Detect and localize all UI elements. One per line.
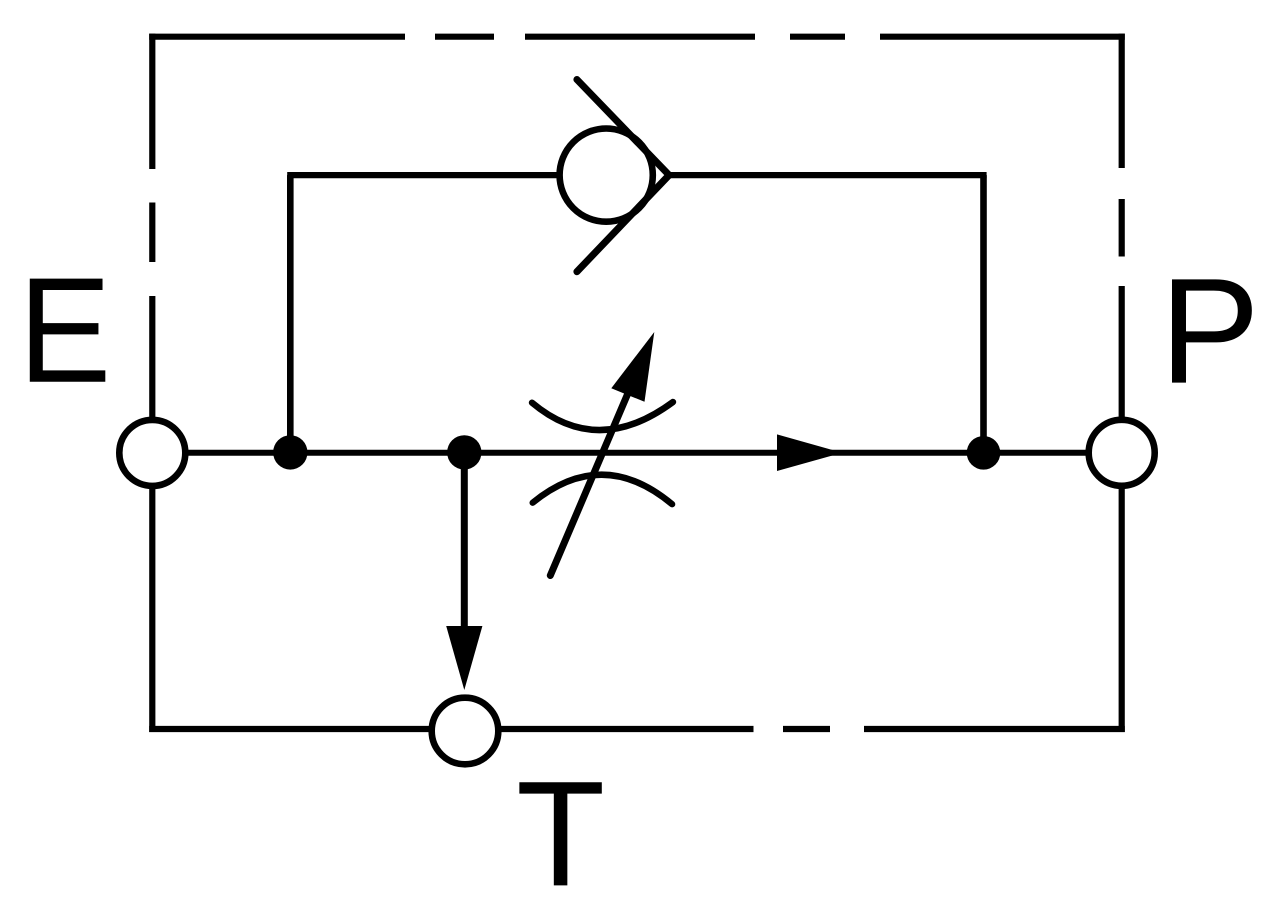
throttle adjustment arrowhead — [611, 332, 654, 402]
enclosure dashed border: bottom side — [149, 726, 1125, 732]
throttle (variable restrictor) lower arc — [533, 475, 672, 504]
enclosure dashed border: top side — [149, 34, 1125, 40]
throttle (variable restrictor) upper arc — [532, 402, 673, 430]
wire: bypass right vertical (down to node C) — [980, 175, 987, 453]
port P circle — [1089, 420, 1155, 486]
node C: junction dot right — [967, 436, 1001, 470]
svg-text:E: E — [18, 246, 111, 414]
arrowhead: rightward flow arrow on main line — [777, 434, 842, 471]
svg-text:P: P — [1160, 247, 1260, 415]
enclosure dashed border: right side — [1119, 34, 1125, 732]
arrowhead: downward flow arrow into port T — [446, 626, 482, 690]
wire: branch from node B down toward port T — [461, 453, 468, 632]
wire: bypass top horizontal, left of check valve — [287, 172, 557, 178]
check valve V1: body circle — [560, 129, 653, 222]
check valve V1: seat chevron — [577, 80, 669, 272]
throttle adjustment arrow shaft — [550, 372, 637, 576]
wire: bypass left vertical (node A up to check-valve line) — [287, 175, 294, 453]
port E circle — [119, 420, 185, 486]
node B: junction dot center — [447, 435, 481, 469]
wire: bypass top horizontal, right of check valve — [669, 172, 987, 178]
port T circle — [432, 698, 499, 765]
svg-text:T: T — [516, 751, 605, 918]
node A: junction dot left — [273, 435, 307, 469]
wire: main line from port E to port P — [186, 450, 1088, 456]
enclosure dashed border: left side — [149, 34, 155, 732]
